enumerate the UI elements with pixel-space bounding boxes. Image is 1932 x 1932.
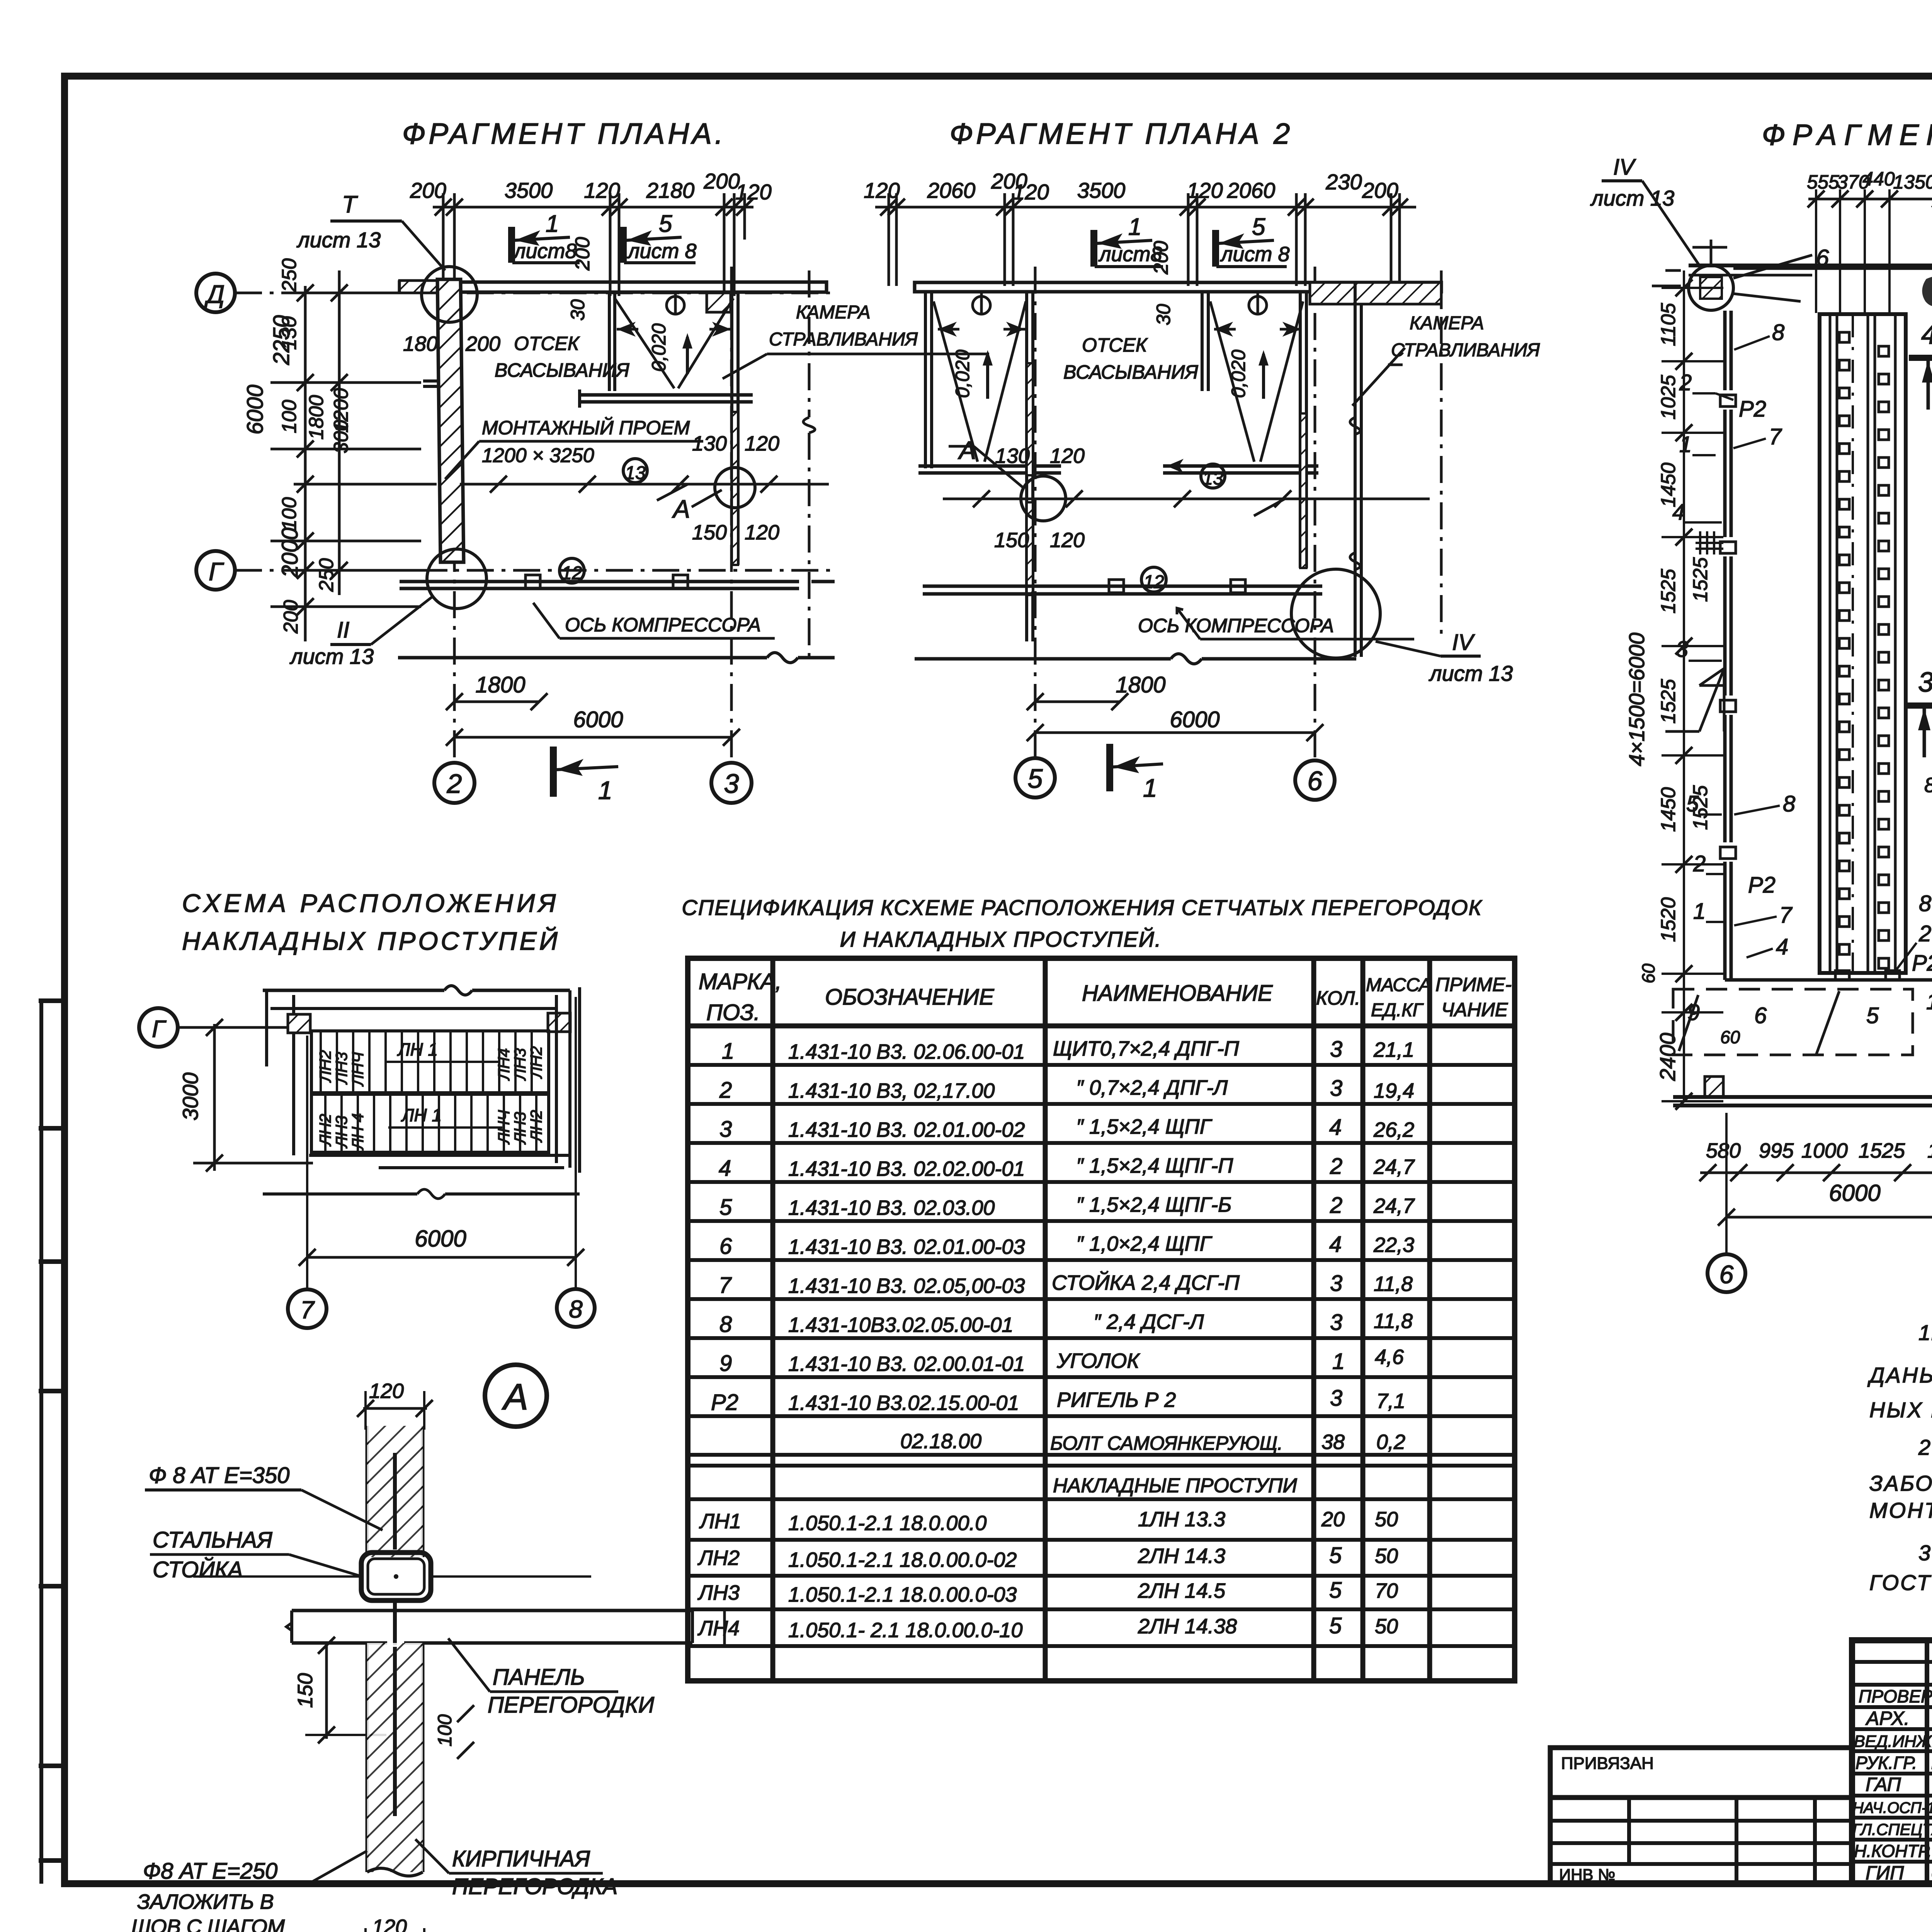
svg-text:1: 1 xyxy=(598,776,612,804)
svg-text:ГИП: ГИП xyxy=(1866,1862,1904,1884)
svg-text:лист 8: лист 8 xyxy=(627,240,697,263)
svg-text:Фрагмент плана.: Фрагмент плана. xyxy=(402,117,726,150)
svg-text:100: 100 xyxy=(278,497,301,531)
axis 13 circle xyxy=(1201,464,1225,488)
svg-text:ЛН2: ЛН2 xyxy=(527,1110,545,1143)
svg-text:120: 120 xyxy=(1050,529,1085,552)
svg-text:8: 8 xyxy=(569,1295,583,1323)
svg-text:8: 8 xyxy=(719,1312,732,1337)
svg-text:ЛН 1: ЛН 1 xyxy=(397,1039,438,1060)
svg-text:1525: 1525 xyxy=(1689,557,1712,602)
svg-text:ЛН3: ЛН3 xyxy=(332,1052,350,1085)
top wall of hall xyxy=(1689,264,1932,267)
svg-text:1350: 1350 xyxy=(1893,171,1932,193)
upper panel wall hatched xyxy=(367,1426,423,1557)
axis G line xyxy=(235,569,831,572)
top dim line xyxy=(875,193,1416,286)
svg-text:6: 6 xyxy=(1308,766,1323,796)
axis circle G xyxy=(196,551,235,590)
svg-text:Н.контр.: Н.контр. xyxy=(1854,1841,1932,1861)
axis G line right xyxy=(1733,267,1932,270)
stair bottom walls xyxy=(309,1154,570,1157)
svg-text:Г: Г xyxy=(209,557,224,586)
svg-text:2000: 2000 xyxy=(277,527,303,578)
left vertical dim chain plan3 xyxy=(1662,270,1723,1101)
svg-text:0,020: 0,020 xyxy=(648,323,670,372)
axis circle D xyxy=(196,274,235,312)
bottom dashed duct xyxy=(1673,989,1913,1055)
svg-text:Кирпичная: Кирпичная xyxy=(452,1846,590,1871)
svg-text:20: 20 xyxy=(1321,1508,1345,1531)
circle 8 xyxy=(557,1289,595,1327)
svg-text:ЛН 4: ЛН 4 xyxy=(349,1113,367,1151)
axis circle 3 xyxy=(711,763,752,803)
svg-text:3: 3 xyxy=(719,1117,732,1142)
svg-text:Фрагмент плана 2: Фрагмент плана 2 xyxy=(950,117,1293,150)
svg-text:Марка,: Марка, xyxy=(699,969,782,994)
svg-text:70: 70 xyxy=(1375,1579,1398,1602)
left camera X brace xyxy=(934,292,1026,462)
svg-text:″ 0,7×2,4 ДПГ-Л: ″ 0,7×2,4 ДПГ-Л xyxy=(1076,1076,1228,1099)
foundation xyxy=(923,580,1322,594)
lower wall xyxy=(915,657,1171,661)
svg-text:200: 200 xyxy=(1150,241,1172,275)
svg-text:1: 1 xyxy=(1926,989,1932,1014)
joint circle xyxy=(1021,476,1066,521)
svg-text:1.050.1-2.1 18.0.00.0-02: 1.050.1-2.1 18.0.00.0-02 xyxy=(788,1548,1017,1571)
axis 12 circle xyxy=(560,558,584,583)
svg-text:ГАП: ГАП xyxy=(1866,1774,1901,1795)
svg-text:6000: 6000 xyxy=(415,1226,466,1252)
top dim labels xyxy=(410,169,771,204)
axis 13 line xyxy=(460,483,829,486)
horizontal panel xyxy=(286,1611,692,1643)
svg-text:1.050.1-2.1 18.0.00.0-03: 1.050.1-2.1 18.0.00.0-03 xyxy=(788,1583,1017,1606)
svg-text:1.431-10 в3. 02.02.00-01: 1.431-10 в3. 02.02.00-01 xyxy=(788,1157,1025,1180)
svg-text:1.431-10 В3. 02.05,00-03: 1.431-10 В3. 02.05,00-03 xyxy=(788,1274,1025,1298)
svg-text:ЛН1: ЛН1 xyxy=(699,1510,741,1533)
svg-text:Уголок: Уголок xyxy=(1056,1349,1140,1372)
svg-text:Р2: Р2 xyxy=(711,1390,738,1415)
svg-text:150: 150 xyxy=(294,1673,317,1708)
axis 5 vertical xyxy=(1035,267,1441,759)
svg-text:3: 3 xyxy=(1330,1076,1342,1101)
svg-text:Монтажный проем: Монтажный проем xyxy=(482,417,690,439)
camera X brace xyxy=(615,292,733,388)
svg-text:Кол.: Кол. xyxy=(1316,987,1360,1009)
svg-text:Рук.гр.: Рук.гр. xyxy=(1855,1753,1917,1773)
svg-text:38: 38 xyxy=(1321,1430,1345,1454)
svg-text:11,8: 11,8 xyxy=(1374,1310,1413,1333)
svg-text:ЛН 1: ЛН 1 xyxy=(401,1105,442,1125)
svg-text:440: 440 xyxy=(1862,168,1895,190)
svg-text:02.18.00: 02.18.00 xyxy=(900,1430,981,1453)
lower break wall xyxy=(263,1192,417,1196)
bottom wall of hall with teeth xyxy=(1725,978,1932,982)
joint circle top xyxy=(422,267,477,322)
svg-text:ЛН3: ЛН3 xyxy=(511,1112,529,1145)
svg-text:5: 5 xyxy=(719,1195,732,1220)
right thin wall xyxy=(732,292,738,565)
svg-text:6: 6 xyxy=(1719,1260,1734,1289)
top wall xyxy=(915,282,1441,292)
bottom labels xyxy=(1687,989,1932,1028)
brace trapezoid xyxy=(1665,668,1724,731)
svg-text:7: 7 xyxy=(719,1273,732,1298)
svg-text:1525: 1525 xyxy=(1689,785,1712,830)
svg-text:250: 250 xyxy=(278,259,301,293)
svg-text:Приме-: Приме- xyxy=(1435,974,1512,995)
rows xyxy=(697,1037,1415,1642)
svg-text:ГОСТ 22414-77. Общее колич: ГОСТ 22414-77. Общее количество шкафов -… xyxy=(1869,1570,1932,1595)
svg-text:Ось компрессора: Ось компрессора xyxy=(565,614,761,636)
hatched columns bottom xyxy=(1705,1077,1723,1097)
svg-text:″ 1,5×2,4 ЩПГ-П: ″ 1,5×2,4 ЩПГ-П xyxy=(1076,1154,1233,1177)
svg-text:А: А xyxy=(957,436,976,464)
left segmented wall axis6 xyxy=(1725,311,1731,980)
svg-text:230: 230 xyxy=(1325,170,1362,194)
svg-text:1ЛН 13.3: 1ЛН 13.3 xyxy=(1138,1508,1225,1531)
svg-text:2250: 2250 xyxy=(269,315,294,365)
svg-text:1: 1 xyxy=(1332,1349,1345,1374)
svg-text:120: 120 xyxy=(584,178,620,202)
svg-text:″ 1,0×2,4 ЩПГ: ″ 1,0×2,4 ЩПГ xyxy=(1076,1232,1213,1255)
svg-text:180: 180 xyxy=(403,332,438,355)
svg-text:250: 250 xyxy=(315,558,338,592)
svg-text:12: 12 xyxy=(1143,572,1164,592)
svg-text:3: 3 xyxy=(1330,1037,1342,1062)
svg-text:Стальная: Стальная xyxy=(153,1527,272,1553)
svg-text:22,3: 22,3 xyxy=(1373,1233,1414,1257)
section flag 1 top xyxy=(508,227,515,263)
svg-text:1: 1 xyxy=(1143,774,1157,802)
svg-text:6: 6 xyxy=(1754,1003,1767,1028)
svg-text:0,020: 0,020 xyxy=(952,350,973,398)
svg-text:3: 3 xyxy=(724,769,739,799)
svg-text:А: А xyxy=(502,1376,528,1418)
lower wall xyxy=(398,656,767,660)
svg-text:1525: 1525 xyxy=(1657,568,1680,614)
svg-text:1.431-10 в3. 02.00.01-01: 1.431-10 в3. 02.00.01-01 xyxy=(788,1352,1025,1376)
hatched corner blocks xyxy=(288,1014,310,1033)
svg-text:II: II xyxy=(337,617,349,643)
svg-text:60: 60 xyxy=(1720,1027,1740,1047)
svg-text:1.431-10 в3. 02.03.00: 1.431-10 в3. 02.03.00 xyxy=(788,1196,995,1219)
top dim labels xyxy=(864,169,1398,204)
svg-text:стравливания: стравливания xyxy=(769,329,918,350)
svg-text:1450: 1450 xyxy=(1927,1139,1932,1162)
svg-text:3: 3 xyxy=(1330,1310,1342,1335)
svg-text:1525: 1525 xyxy=(1859,1139,1905,1162)
svg-text:ед.кг: ед.кг xyxy=(1371,1000,1424,1020)
svg-text:5: 5 xyxy=(1252,214,1265,240)
svg-text:5: 5 xyxy=(1028,764,1043,794)
svg-text:4: 4 xyxy=(1329,1232,1342,1257)
svg-text:1000: 1000 xyxy=(1801,1139,1848,1162)
stamp outer xyxy=(1852,1640,1932,1884)
joint circle bottom xyxy=(427,549,486,609)
svg-text:1800: 1800 xyxy=(1116,672,1165,697)
svg-text:лист 13: лист 13 xyxy=(296,228,381,252)
svg-text:50: 50 xyxy=(1375,1508,1398,1531)
svg-text:Отсек: Отсек xyxy=(514,333,580,354)
svg-text:забора и стравливания по осям: забора и стравливания по осям 3;4;5;6;7 … xyxy=(1869,1471,1932,1495)
svg-text:1: 1 xyxy=(546,211,559,237)
svg-text:5: 5 xyxy=(1329,1613,1342,1638)
axis 6 vertical xyxy=(1314,267,1316,759)
svg-text:1.050.1- 2.1 18.0.00.0-10: 1.050.1- 2.1 18.0.00.0-10 xyxy=(788,1619,1022,1642)
axis D line xyxy=(235,267,831,762)
header texts xyxy=(699,969,1512,1025)
left camera shelf xyxy=(918,464,1061,468)
svg-text:Схема расположения: Схема расположения xyxy=(182,889,559,917)
LN labels in scheme xyxy=(316,1039,545,1151)
svg-text:8: 8 xyxy=(1772,320,1784,345)
svg-text:2: 2 xyxy=(1679,370,1692,395)
svg-text:ЛН4: ЛН4 xyxy=(495,1048,513,1081)
svg-text:4: 4 xyxy=(1329,1115,1342,1140)
svg-text:7: 7 xyxy=(1779,903,1793,928)
svg-text:0,2: 0,2 xyxy=(1376,1430,1405,1454)
svg-text:Г: Г xyxy=(152,1016,167,1043)
svg-text:лист 13: лист 13 xyxy=(289,644,374,668)
svg-text:4×1500=6000: 4×1500=6000 xyxy=(1624,633,1649,766)
svg-text:11,8: 11,8 xyxy=(1374,1272,1413,1296)
svg-text:Т: Т xyxy=(342,191,358,218)
svg-text:Провер: Провер xyxy=(1859,1686,1932,1706)
svg-text:200: 200 xyxy=(465,332,500,355)
svg-text:1800: 1800 xyxy=(475,672,525,697)
right camera xyxy=(1201,292,1204,391)
cross mark symbol xyxy=(1696,531,1723,554)
svg-text:лист 13: лист 13 xyxy=(1429,661,1513,685)
svg-text:100: 100 xyxy=(278,400,301,434)
svg-text:21,1: 21,1 xyxy=(1373,1038,1414,1061)
label flags on left wall xyxy=(1672,320,1795,959)
top dimension line xyxy=(433,193,753,296)
section flag 1 bottom xyxy=(1106,744,1113,791)
left vertical dim chains xyxy=(270,270,437,641)
svg-text:инв №: инв № xyxy=(1559,1866,1615,1884)
svg-text:5: 5 xyxy=(659,211,672,237)
svg-text:2: 2 xyxy=(1918,921,1931,946)
dark blob xyxy=(1922,276,1932,306)
svg-text:4: 4 xyxy=(1776,934,1788,959)
svg-text:шов с шагом: шов с шагом xyxy=(131,1915,285,1932)
svg-text:1.431-10 в3. 02.06.00-01: 1.431-10 в3. 02.06.00-01 xyxy=(788,1040,1025,1063)
svg-text:Фрагмент плана 3: Фрагмент плана 3 xyxy=(1762,119,1932,151)
svg-text:Спецификация ксхеме расположен: Спецификация ксхеме расположения сетчаты… xyxy=(682,895,1482,920)
break axis right xyxy=(1440,270,1443,634)
svg-text:IV: IV xyxy=(1613,155,1636,180)
svg-text:″ 1,5×2,4 ЩПГ: ″ 1,5×2,4 ЩПГ xyxy=(1076,1115,1213,1138)
svg-text:8: 8 xyxy=(1919,891,1931,916)
svg-text:IV: IV xyxy=(1452,630,1475,655)
svg-text:200: 200 xyxy=(703,169,740,193)
svg-text:Арх.: Арх. xyxy=(1865,1708,1910,1729)
top dim row xyxy=(1807,168,1932,193)
svg-text:Щит0,7×2,4 ДПГ-П: Щит0,7×2,4 ДПГ-П xyxy=(1053,1037,1240,1060)
svg-text:2ЛН 14.3: 2ЛН 14.3 xyxy=(1138,1544,1225,1568)
svg-text:2060: 2060 xyxy=(927,178,976,202)
svg-text:300: 300 xyxy=(330,420,352,454)
svg-text:6000: 6000 xyxy=(1829,1180,1880,1206)
svg-text:130: 130 xyxy=(692,432,727,455)
svg-text:Камера: Камера xyxy=(796,302,871,323)
svg-text:580: 580 xyxy=(1706,1139,1741,1162)
svg-text:1.431-10 в3. 02.01.00-03: 1.431-10 в3. 02.01.00-03 xyxy=(788,1235,1025,1259)
camera left wall xyxy=(608,292,611,391)
svg-text:2ЛН 14.38: 2ЛН 14.38 xyxy=(1138,1615,1237,1638)
svg-text:2: 2 xyxy=(719,1078,732,1103)
left attachment table xyxy=(1550,1748,1852,1884)
svg-text:2: 2 xyxy=(447,769,462,799)
top wall xyxy=(400,281,827,312)
svg-text:120: 120 xyxy=(1013,180,1049,204)
svg-text:555: 555 xyxy=(1807,171,1839,193)
joint circle mid right xyxy=(715,468,755,508)
svg-text:перегородка: перегородка xyxy=(452,1874,617,1899)
svg-text:Д: Д xyxy=(204,280,224,308)
svg-text:5: 5 xyxy=(1329,1543,1342,1568)
svg-text:Ригель Р 2: Ригель Р 2 xyxy=(1057,1388,1176,1412)
svg-text:стравливания: стравливания xyxy=(1391,340,1540,361)
svg-text:Нач.ОСП-1: Нач.ОСП-1 xyxy=(1852,1799,1932,1816)
svg-text:4: 4 xyxy=(1921,319,1932,350)
svg-text:100: 100 xyxy=(434,1714,456,1747)
foundation lines xyxy=(400,575,835,588)
svg-text:″ 2,4 ДСГ-Л: ″ 2,4 ДСГ-Л xyxy=(1094,1310,1204,1333)
svg-text:995: 995 xyxy=(1759,1139,1794,1162)
svg-text:150: 150 xyxy=(692,521,727,544)
svg-text:4,6: 4,6 xyxy=(1375,1345,1404,1369)
far right wall xyxy=(1350,282,1361,657)
svg-text:лист8: лист8 xyxy=(513,240,577,263)
svg-text:Камера: Камера xyxy=(1410,313,1484,333)
bottom dim line1 xyxy=(1700,1172,1932,1174)
stair top wall xyxy=(263,986,570,1155)
svg-text:Р2: Р2 xyxy=(1912,951,1932,976)
svg-text:ЛН2: ЛН2 xyxy=(316,1114,334,1147)
svg-text:всасывания: всасывания xyxy=(1063,361,1199,383)
svg-text:всасывания: всасывания xyxy=(495,359,630,381)
svg-text:Накладные проступи: Накладные проступи xyxy=(1053,1475,1297,1497)
svg-text:120: 120 xyxy=(369,1379,404,1403)
svg-text:даны в основном комплекте ч: даны в основном комплекте чертежей желез… xyxy=(1867,1363,1932,1387)
svg-text:Болт самоянкерующ.: Болт самоянкерующ. xyxy=(1050,1432,1283,1454)
svg-text:3000: 3000 xyxy=(178,1072,202,1121)
svg-text:2060: 2060 xyxy=(1227,178,1276,202)
section flag 5 top xyxy=(620,227,627,263)
circle 7 xyxy=(288,1289,327,1328)
svg-text:60: 60 xyxy=(1638,963,1658,983)
svg-text:7,1: 7,1 xyxy=(1376,1389,1405,1413)
svg-text:120: 120 xyxy=(372,1915,407,1932)
long bottom wall xyxy=(1673,1095,1932,1099)
svg-text:9: 9 xyxy=(719,1351,732,1376)
svg-text:120: 120 xyxy=(1050,444,1085,468)
steel post rounded square xyxy=(361,1553,431,1600)
section flag 5 top xyxy=(1212,230,1219,267)
central wall xyxy=(1027,292,1033,641)
svg-text:4: 4 xyxy=(719,1156,731,1181)
svg-text:1525: 1525 xyxy=(1657,679,1680,724)
svg-text:1.431-10 В3.02.15.00-01: 1.431-10 В3.02.15.00-01 xyxy=(788,1391,1019,1415)
svg-text:3500: 3500 xyxy=(1077,178,1126,202)
svg-text:Гл.спецта: Гл.спецта xyxy=(1852,1820,1932,1838)
svg-text:1800: 1800 xyxy=(305,395,328,440)
svg-text:200: 200 xyxy=(571,237,594,271)
svg-text:200: 200 xyxy=(410,178,446,202)
svg-text:5: 5 xyxy=(1329,1578,1342,1603)
svg-text:Обозначение: Обозначение xyxy=(825,985,995,1010)
svg-text:50: 50 xyxy=(1375,1544,1398,1568)
lower brick wall xyxy=(367,1643,423,1872)
svg-text:6: 6 xyxy=(719,1234,732,1259)
axis circle 2 xyxy=(434,763,474,803)
section flag 1 top xyxy=(1090,230,1097,267)
svg-text:ЛН2: ЛН2 xyxy=(527,1046,545,1079)
svg-text:ЛН2: ЛН2 xyxy=(697,1546,740,1570)
break line right xyxy=(808,270,811,417)
svg-text:3: 3 xyxy=(1330,1386,1342,1411)
svg-text:130: 130 xyxy=(995,444,1030,468)
svg-text:накладных проступей: накладных проступей xyxy=(182,926,560,955)
svg-text:3500: 3500 xyxy=(505,178,553,202)
axis circle 6 xyxy=(1708,1254,1745,1292)
svg-text:200: 200 xyxy=(1362,178,1398,202)
svg-text:120: 120 xyxy=(745,521,779,544)
svg-text:2: 2 xyxy=(1330,1193,1342,1218)
svg-text:поз.: поз. xyxy=(706,1000,760,1025)
axis G circle xyxy=(139,1008,178,1047)
svg-text:1: 1 xyxy=(1128,214,1141,240)
svg-text:ЛНЧ: ЛНЧ xyxy=(349,1052,367,1087)
svg-text:лист 13: лист 13 xyxy=(1590,186,1674,210)
axis 12 circle xyxy=(1141,567,1166,592)
svg-text:1025: 1025 xyxy=(1657,374,1680,420)
svg-text:3. Гардеробы оборудованы шка: 3. Гардеробы оборудованы шкафами МД-33. … xyxy=(1918,1541,1932,1565)
family names xyxy=(1931,1685,1932,1883)
svg-text:лист 8: лист 8 xyxy=(1220,243,1290,266)
svg-text:2.Участки кирпичных перегородо: 2.Участки кирпичных перегородок в камера… xyxy=(1918,1435,1932,1459)
svg-text:7: 7 xyxy=(300,1296,315,1324)
svg-text:Ф 8 АТ е=350: Ф 8 АТ е=350 xyxy=(149,1463,289,1488)
svg-text:6000: 6000 xyxy=(573,707,623,732)
svg-text:Наименование: Наименование xyxy=(1082,981,1273,1006)
joint circle top left xyxy=(1689,265,1733,310)
left wall hatched xyxy=(437,279,464,562)
small dim marks above joint xyxy=(1652,240,1727,286)
svg-text:1: 1 xyxy=(1693,899,1706,924)
svg-text:2: 2 xyxy=(1330,1154,1342,1179)
bottom dim labels row xyxy=(1706,1130,1932,1168)
svg-text:24,7: 24,7 xyxy=(1373,1194,1415,1218)
svg-text:150: 150 xyxy=(994,529,1029,552)
svg-text:24,7: 24,7 xyxy=(1373,1155,1415,1179)
svg-text:Ось компрессора: Ось компрессора xyxy=(1138,615,1334,636)
svg-text:1450: 1450 xyxy=(1657,463,1680,507)
svg-text:1520: 1520 xyxy=(1657,897,1680,942)
svg-text:А: А xyxy=(672,495,690,523)
svg-text:1: 1 xyxy=(722,1039,734,1064)
svg-text:Р2: Р2 xyxy=(1739,396,1766,422)
axis 3 vertical xyxy=(730,267,733,762)
svg-text:8: 8 xyxy=(1783,791,1795,816)
axis circle 6 xyxy=(1295,760,1335,800)
svg-text:ЛН2: ЛН2 xyxy=(316,1050,334,1083)
svg-text:чание: чание xyxy=(1441,999,1508,1020)
